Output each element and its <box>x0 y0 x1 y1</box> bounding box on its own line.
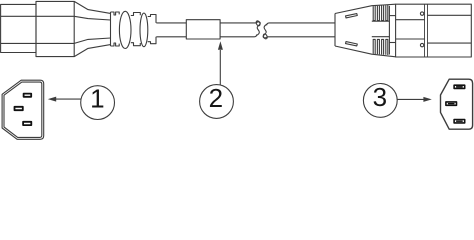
svg-text:2: 2 <box>209 83 223 113</box>
svg-text:3: 3 <box>373 82 387 112</box>
svg-text:1: 1 <box>90 83 104 113</box>
